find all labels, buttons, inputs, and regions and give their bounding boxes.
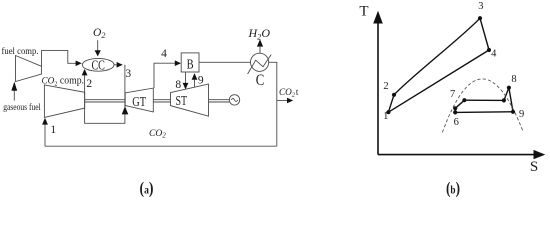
gas turbine GT (125, 88, 153, 112)
wire stream 2 / duct U left-bottom-right with stream 3 drop (85, 65, 125, 124)
point 6 (453, 110, 457, 114)
svg-text:gaseous fuel: gaseous fuel (3, 102, 41, 113)
svg-text:2: 2 (86, 78, 92, 90)
wire H2O outlet (259, 47, 261, 53)
svg-text:4: 4 (161, 48, 167, 60)
svg-text:3: 3 (478, 1, 483, 12)
wire gaseous fuel inlet (13, 91, 15, 101)
svg-text:S: S (530, 159, 538, 175)
line 7-a economizer (455, 100, 464, 108)
wire CO2 recycle bottom (45, 145, 277, 147)
wire O2 inlet (97, 40, 99, 50)
node H2O arrow (257, 39, 263, 46)
T axis arrowhead (373, 11, 383, 24)
CO2 compressor (44, 85, 84, 118)
wire condenser outlet down (269, 62, 277, 146)
node stream 2 arrow into CC (82, 69, 88, 76)
T axis (378, 23, 535, 155)
node stream 8 arrow (183, 83, 189, 90)
condenser C (251, 53, 269, 71)
shaft GT-ST (153, 99, 170, 101)
shaft compressor-GT (85, 99, 125, 101)
svg-text:8: 8 (511, 74, 516, 85)
wire stream 8 from B to ST (185, 72, 187, 83)
shaft ST-generator (209, 99, 230, 101)
svg-text:7: 7 (450, 89, 455, 100)
wire stream 9 from ST to B (194, 80, 196, 88)
node O2 arrow (95, 50, 101, 56)
node fuel arrow into CC (76, 61, 82, 67)
node arrow into GT bottom (122, 106, 129, 114)
svg-text:4: 4 (491, 48, 497, 59)
svg-text:GT: GT (132, 95, 146, 110)
node stream 4 arrow into B (175, 60, 181, 66)
point 9 (511, 110, 515, 114)
svg-text:ST: ST (176, 93, 188, 108)
line 4-1 heat rejection (388, 50, 489, 112)
wire B to condenser (199, 61, 251, 63)
point a saturated liquid (462, 98, 466, 102)
generator (229, 95, 239, 105)
svg-text:T: T (359, 4, 368, 20)
svg-text:B: B (187, 57, 194, 72)
line 9-6 condensation (455, 111, 513, 114)
node gaseous fuel arrow (11, 82, 17, 91)
point 2 (392, 93, 396, 97)
svg-text:2: 2 (383, 81, 388, 92)
svg-text:6: 6 (454, 117, 459, 128)
node stream 1 arrow (42, 118, 48, 125)
line 8-9 expansion ST (509, 88, 513, 112)
condenser zigzag (248, 55, 272, 75)
point 1 (386, 110, 390, 114)
svg-text:9: 9 (198, 75, 204, 87)
wire fuel discharge to CC (42, 51, 77, 67)
curve 2-3 heat addition (394, 18, 480, 95)
node stream 3 arrow (117, 62, 123, 68)
svg-text:CO2 comp.: CO2 comp. (42, 76, 85, 88)
steam turbine ST (171, 84, 209, 116)
svg-text:CC: CC (91, 58, 105, 73)
point 3 (478, 16, 482, 20)
combustion chamber CC (82, 58, 114, 71)
saturation dome dashed (442, 79, 523, 132)
S axis arrowhead (534, 150, 546, 159)
line 3-4 expansion (480, 18, 489, 50)
svg-text:1: 1 (50, 124, 56, 136)
line a-b evaporation (464, 99, 504, 101)
node stream 9 arrow (192, 73, 198, 80)
line 6-7 pump (454, 108, 456, 112)
wire stream 4 riser from GT (154, 63, 176, 88)
point 4 (487, 48, 491, 52)
node CO2 export arrow (287, 98, 293, 104)
point 8 (507, 86, 511, 90)
line b-8 superheat (504, 88, 509, 101)
svg-text:fuel comp.: fuel comp. (2, 46, 39, 57)
svg-text:9: 9 (519, 109, 524, 120)
line 1-2 compression (388, 95, 394, 112)
fuel compressor (16, 56, 42, 82)
wire stream 3 from CC (114, 64, 116, 66)
boiler B (181, 53, 199, 72)
S axis (378, 154, 535, 156)
point 7 (453, 106, 457, 110)
wire CO2 export (277, 100, 288, 102)
svg-text:C: C (256, 72, 265, 89)
wire stream 1 riser (44, 124, 46, 146)
point b saturated vapor (502, 98, 506, 102)
svg-text:3: 3 (125, 68, 131, 80)
svg-text:8: 8 (175, 79, 181, 91)
svg-text:1: 1 (383, 111, 388, 122)
